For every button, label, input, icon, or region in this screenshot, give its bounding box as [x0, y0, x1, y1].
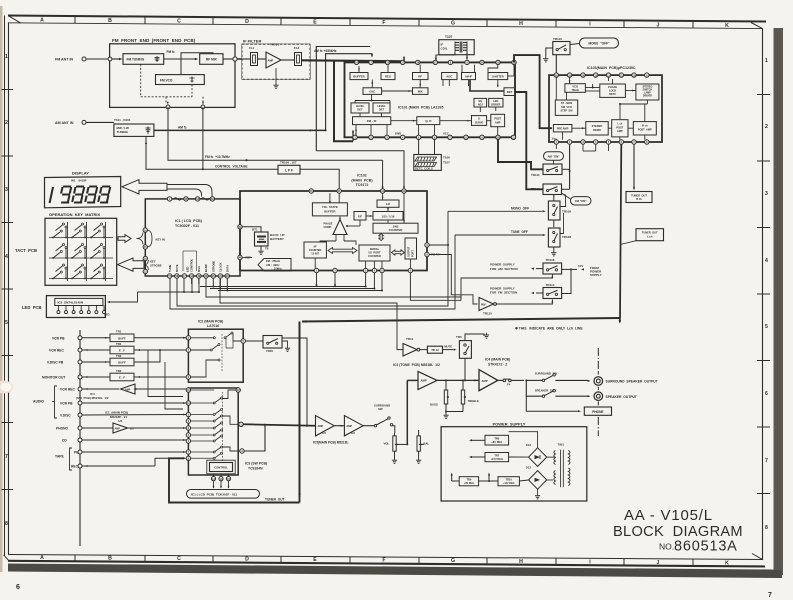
block AM-IF [462, 73, 476, 80]
svg-text:AMP: AMP [115, 427, 121, 430]
wire pin12 to IC103 preamp [514, 55, 552, 128]
svg-text:FM FRONT END (FRONT END P: FM FRONT END (FRONT END PCB) [112, 38, 196, 43]
block STEREO SWITCH LAMP DRIVER [636, 84, 659, 100]
svg-text:860513A: 860513A [674, 539, 738, 555]
white-out blob left edge [0, 381, 13, 394]
svg-text:FM TUNING: FM TUNING [127, 58, 145, 62]
svg-text:TR3: TR3 [116, 354, 122, 358]
svg-text:AMP: AMP [482, 379, 488, 383]
svg-text:Q. D: Q. D [425, 119, 432, 123]
detector coils T106 T107 [414, 155, 442, 171]
svg-text:POWER SUPPLY: POWER SUPPLY [493, 421, 526, 426]
wire mute control [220, 276, 403, 350]
svg-text:J: J [657, 22, 660, 28]
IC3 internal switches [222, 392, 224, 462]
svg-text:IF FILTER: IF FILTER [243, 39, 261, 44]
wire TR116 bottom feed [461, 275, 552, 301]
transistor TR16 switch [245, 340, 263, 342]
block DET [504, 88, 515, 96]
block L-ch POST AMP [612, 120, 628, 137]
svg-text:1/2: 1/2 [351, 431, 355, 435]
block CONTROL [210, 463, 233, 472]
svg-text:AM fc: AM fc [178, 125, 187, 129]
svg-text:BUFFER: BUFFER [353, 74, 364, 78]
callout FM 25kHz [258, 259, 291, 272]
svg-text:IC2 (MAIN PCB): IC2 (MAIN PCB) [198, 320, 223, 324]
IC102 right pins [425, 243, 429, 247]
bubble FM ON [571, 197, 592, 205]
svg-text:TR114: TR114 [546, 283, 555, 287]
svg-text:OUTPUT: OUTPUT [407, 246, 410, 257]
IC2 internal switches [191, 337, 213, 339]
svg-text:DEMO: DEMO [593, 128, 601, 132]
block PHONE [526, 396, 578, 411]
svg-text:G: G [451, 21, 455, 27]
svg-text:CONTROL VOLTAGE: CONTROL VOLTAGE [215, 165, 247, 169]
svg-text:TR110: TR110 [553, 37, 562, 41]
wire pin9 join [244, 425, 265, 451]
svg-text:1/2: 1/2 [118, 419, 123, 423]
wire AM ant [86, 121, 114, 123]
svg-text:LEVEL: LEVEL [377, 104, 386, 108]
svg-text:6: 6 [765, 391, 768, 397]
svg-text:PORT: PORT [411, 250, 414, 257]
svg-text:E . F: E . F [119, 376, 125, 380]
block S CURVE [472, 116, 487, 126]
svg-text:OSC: OSC [369, 89, 375, 93]
block S-METER [488, 73, 508, 80]
svg-text:IC5 SN74LS145N: IC5 SN74LS145N [58, 301, 84, 305]
IC3 output wires [191, 389, 215, 391]
svg-text:TR115: TR115 [483, 312, 492, 316]
crossing jog wires [148, 350, 183, 397]
svg-text:G: G [451, 558, 455, 564]
IC1 bottom pins [167, 274, 171, 278]
svg-text:1: 1 [765, 58, 768, 64]
audio bus vertical line [79, 330, 81, 546]
LED PCB pins [57, 306, 59, 311]
svg-text:AA - V105/L: AA - V105/L [624, 507, 713, 524]
IC103 internal wires [569, 77, 571, 83]
svg-text:LED PCB: LED PCB [22, 305, 42, 310]
svg-text:IC3 (SW PCB): IC3 (SW PCB) [245, 462, 267, 466]
svg-text:TC9172: TC9172 [356, 183, 369, 187]
IC1 left pins key strobe [143, 256, 147, 260]
block TR7 +15V REG [485, 453, 509, 462]
svg-text:1/2: 1/2 [322, 431, 326, 435]
wires pins to detc coils [418, 140, 420, 155]
svg-text:TR113: TR113 [531, 187, 540, 191]
svg-text:FM - IF: FM - IF [367, 119, 377, 123]
wire mono off control [177, 211, 448, 306]
svg-text:76kHz: 76kHz [571, 88, 579, 92]
svg-text:REG: REG [385, 74, 391, 78]
block PRE AMP [553, 125, 572, 132]
block BUFFER [350, 73, 368, 80]
svg-text:+15V REG: +15V REG [491, 457, 503, 461]
wire TUNER OUT L-ch long heavy [620, 144, 621, 318]
svg-text:MONITOR OUT: MONITOR OUT [42, 376, 65, 380]
block SERIAL I/O PORT COUNTER [359, 245, 390, 261]
block TUNER OUT R-ch [626, 192, 652, 203]
IC101 top pins [354, 60, 358, 64]
svg-text:+12V REG: +12V REG [503, 482, 515, 485]
ground at TR16 [282, 341, 288, 346]
wire VCO to mixer [181, 53, 213, 75]
svg-text:DET: DET [379, 108, 385, 112]
svg-text:FM VCO: FM VCO [160, 78, 173, 82]
svg-text:IC101 (MAIN PCB) LA1265: IC101 (MAIN PCB) LA1265 [398, 105, 444, 109]
svg-text:STROBE: STROBE [212, 261, 216, 272]
svg-text:SURROUND SPEAKER OUTPUT: SURROUND SPEAKER OUTPUT [606, 380, 658, 384]
svg-text:SW: SW [378, 407, 383, 411]
svg-text:FL2: FL2 [294, 46, 300, 50]
control bus lines below IC102 [316, 273, 318, 285]
svg-text:BASS: BASS [430, 402, 438, 406]
wire TR110 to pin16 [555, 55, 557, 73]
block PHASE LOCK DETC [600, 84, 626, 97]
svg-text:DETC: DETC [609, 92, 616, 96]
svg-text:C: C [177, 556, 181, 562]
svg-text:MONO "OFF": MONO "OFF" [588, 42, 610, 46]
svg-text:IN1 9410P: IN1 9410P [71, 179, 87, 183]
svg-text:7: 7 [768, 592, 772, 599]
block LEVEL DET 1 [351, 103, 369, 113]
svg-text:D12: D12 [526, 443, 532, 447]
svg-text:PHASE: PHASE [608, 85, 617, 89]
svg-text:TR5: TR5 [456, 335, 462, 339]
svg-text:A: A [40, 555, 44, 561]
svg-text:+8V REG: +8V REG [491, 440, 502, 444]
op IC3 TC9164N switch matrix [188, 388, 238, 475]
svg-text:FM : 25kHz: FM : 25kHz [266, 259, 281, 263]
key matrix grid [49, 222, 113, 281]
svg-text:LEVEL: LEVEL [356, 104, 365, 108]
svg-text:TR2: TR2 [116, 369, 122, 373]
dashed tuning voltage lines [140, 64, 142, 97]
right page shadow band [774, 28, 784, 575]
wire amp1 to amp2 [334, 425, 344, 427]
svg-text:AGC: AGC [446, 74, 452, 78]
key switches [52, 223, 105, 279]
block RF [413, 73, 429, 80]
chassis dash-dot line [597, 348, 599, 356]
heavy wire IC3 out to amps [243, 424, 315, 425]
svg-text:FOR FM SECTION: FOR FM SECTION [490, 291, 517, 295]
wire pin6 to TR11 [409, 273, 411, 294]
block MIX [413, 88, 429, 95]
block SQ ADJ [474, 98, 487, 107]
svg-text:: 10kHz: : 10kHz [272, 266, 283, 270]
block 1/15 1/16 [373, 212, 403, 221]
svg-text:AMP: AMP [268, 58, 274, 62]
svg-text:TC9302F - 011: TC9302F - 011 [175, 224, 199, 228]
svg-text:TR7: TR7 [494, 453, 499, 457]
svg-text:AM "ON": AM "ON" [548, 154, 561, 158]
svg-text:D: D [245, 19, 249, 25]
svg-text:AMP: AMP [346, 424, 352, 428]
svg-text:VCR REC: VCR REC [60, 388, 75, 392]
svg-text:7: 7 [5, 454, 8, 460]
svg-text:MUTE: MUTE [444, 345, 452, 349]
svg-text:TR101: TR101 [270, 43, 279, 47]
svg-text:+8V REG: +8V REG [464, 482, 474, 485]
svg-text:12V: 12V [578, 264, 583, 268]
svg-text:MUTE: MUTE [175, 264, 179, 272]
svg-text:T107: T107 [443, 160, 450, 164]
block R-ch POST AMP [633, 122, 656, 135]
block TR10 +12V REG [498, 477, 519, 486]
IC101 internal wires [358, 66, 360, 73]
svg-text:TUNE OFF: TUNE OFF [511, 230, 528, 234]
svg-text:3: 3 [5, 187, 8, 193]
svg-text:AMP: AMP [125, 388, 131, 391]
svg-text:TR9: TR9 [466, 478, 471, 482]
svg-text:A: A [40, 17, 44, 23]
svg-text:TUNE: TUNE [168, 264, 172, 272]
svg-text:TB: TB [265, 247, 269, 251]
svg-text:COUNTER: COUNTER [368, 254, 381, 258]
wire to VOL [393, 426, 395, 433]
svg-text:MONO OFF: MONO OFF [511, 206, 529, 210]
switch TR109 box [548, 201, 560, 220]
bubble IC1 LCD PCB TCK302F-011 [187, 490, 260, 499]
svg-text:F4: F4 [507, 383, 511, 387]
block LEVEL DET 2 [373, 103, 390, 113]
svg-text:VCR PB: VCR PB [60, 402, 73, 406]
svg-text:(MAIN PCB): (MAIN PCB) [351, 178, 373, 182]
svg-text:PRE AMP: PRE AMP [557, 127, 569, 131]
svg-text:AM fc +450kHz: AM fc +450kHz [314, 49, 337, 53]
svg-text:TUNER OUT: TUNER OUT [642, 231, 658, 235]
svg-text:F/F: F/F [358, 214, 362, 218]
block 1/N2 COUNTER [373, 223, 418, 233]
svg-text:BUFFER: BUFFER [324, 209, 335, 213]
svg-text:BAL: BAL [424, 442, 430, 446]
IC1 right pins [238, 225, 242, 229]
svg-text:SW VCO: SW VCO [561, 106, 572, 109]
svg-text:FM "ON": FM "ON" [575, 199, 587, 203]
svg-text:B: B [108, 18, 112, 24]
block TUNER OUT L-ch callout [636, 229, 664, 241]
svg-text:DRIVER: DRIVER [643, 95, 652, 98]
wires D12 [509, 432, 538, 448]
wires T107 to pins [435, 55, 437, 61]
block STEREO DEMO [586, 122, 608, 135]
svg-text:ADJ: ADJ [478, 103, 484, 107]
svg-text:AMP: AMP [421, 379, 427, 383]
svg-text:FM fc +10.7MHz: FM fc +10.7MHz [205, 155, 230, 159]
svg-text:T101 , D101: T101 , D101 [114, 118, 131, 122]
svg-text:K: K [725, 560, 729, 566]
wire POST AMP pin10 to TR111 [498, 140, 543, 170]
svg-text:R ch: R ch [642, 125, 648, 128]
svg-text:NO.: NO. [659, 542, 674, 552]
svg-text:BATTERY: BATTERY [270, 237, 284, 241]
IC1 top pins [167, 197, 171, 201]
svg-text:IC2 (TONE PCB) M5218L 1/2: IC2 (TONE PCB) M5218L 1/2 [393, 363, 440, 367]
svg-text:AM-IF: AM-IF [465, 74, 473, 78]
svg-text:SQ: SQ [478, 99, 482, 103]
svg-text:IC4: IC4 [90, 392, 95, 396]
svg-text:8: 8 [5, 521, 8, 527]
svg-text:CD: CD [62, 439, 67, 443]
svg-text:E: E [313, 20, 317, 26]
svg-text:IC4 (MAIN PCB): IC4 (MAIN PCB) [485, 358, 510, 362]
bubble AM ON [544, 152, 564, 160]
svg-text:R ch: R ch [636, 197, 642, 201]
svg-text:CONTROL: CONTROL [190, 258, 194, 272]
svg-text:COUNTER: COUNTER [309, 249, 322, 252]
svg-text:TAPE: TAPE [55, 455, 65, 459]
svg-text:MSG: MSG [197, 266, 201, 272]
block F/F [354, 212, 366, 221]
svg-text:V.DISC: V.DISC [60, 414, 71, 418]
svg-text:AM ANT IN: AM ANT IN [55, 121, 74, 125]
svg-text:K: K [725, 23, 729, 29]
block AGC [442, 73, 457, 80]
amp IC5 first [316, 416, 335, 436]
wires display arrow to pins [167, 185, 212, 197]
svg-text:15 BIT: 15 BIT [311, 252, 319, 256]
wire battery to pin52 [243, 227, 262, 232]
block QD [417, 117, 440, 125]
svg-text:H: H [519, 21, 523, 27]
grid column letters bottom [40, 555, 729, 566]
svg-text:PHONO: PHONO [56, 427, 69, 431]
svg-text:COIL: COIL [441, 47, 448, 51]
svg-text:2: 2 [765, 124, 768, 130]
svg-text:REC: REC [71, 465, 79, 469]
ground under battery [260, 246, 262, 249]
svg-text:GND: GND [395, 132, 401, 136]
svg-text:L P F: L P F [285, 168, 293, 172]
svg-text:4: 4 [765, 258, 768, 264]
svg-text:1/15 / 1/16: 1/15 / 1/16 [382, 214, 395, 218]
svg-text:IC1 ( LCD PCB) TCK302F - 011: IC1 ( LCD PCB) TCK302F - 011 [191, 493, 237, 497]
svg-text:FL1: FL1 [249, 46, 255, 50]
svg-text:F: F [382, 558, 385, 564]
svg-text:AMP: AMP [495, 121, 501, 124]
svg-text:T106: T106 [443, 156, 450, 160]
svg-text:FOR AM SECTION: FOR AM SECTION [490, 267, 518, 271]
block FM VCO [156, 75, 205, 85]
wire LED control to IC5 [183, 278, 185, 292]
op IC101 main block [345, 62, 516, 137]
svg-text:AM : 9kHz: AM : 9kHz [266, 263, 280, 267]
wire INV out to TR114 [496, 300, 552, 305]
svg-text:KEY IN: KEY IN [156, 237, 165, 241]
wire L-ch heavy to bottom left [302, 318, 620, 322]
block 1/2 [377, 200, 399, 207]
wire branch to FM-IF pin1 [334, 61, 353, 141]
svg-text:POST: POST [494, 118, 501, 121]
svg-text:D13: D13 [526, 466, 532, 470]
svg-text:POST AMP: POST AMP [638, 129, 652, 132]
svg-text:FM ANT IN: FM ANT IN [55, 57, 73, 61]
svg-text:DET: DET [507, 90, 513, 94]
svg-text:B: B [108, 556, 112, 562]
block FM TUNING [123, 54, 164, 65]
block IC5 SN74LS145N [55, 298, 103, 305]
svg-text:RF MIX: RF MIX [206, 57, 218, 61]
svg-text:TR16: TR16 [266, 349, 273, 353]
svg-text:OPERATION KEY MATRIX: OPERATION KEY MATRIX [49, 212, 101, 217]
svg-text:VCR REC: VCR REC [49, 349, 64, 353]
svg-text:TR11: TR11 [406, 337, 414, 341]
fat arrow IF counter to serial [328, 248, 357, 254]
IC102 top pins [309, 189, 313, 193]
junction circles on front end bottom [166, 105, 170, 109]
block TRI-STATE BUFFER [312, 203, 347, 216]
wire IC102 pin9 pin8 out [429, 255, 477, 305]
svg-text:LED: LED [493, 99, 498, 103]
block TR12 [420, 349, 428, 351]
wire LPF to IC102 pin [300, 169, 339, 189]
wire TUNER OUT R-ch [633, 144, 635, 189]
svg-text:I/F: I/F [314, 244, 317, 248]
svg-text:FM fc: FM fc [167, 50, 176, 54]
arrow matrix to IC1 [118, 235, 131, 243]
svg-text:TR109: TR109 [562, 210, 571, 214]
svg-text:IC1 ( LCD PCB): IC1 ( LCD PCB) [175, 219, 203, 223]
svg-text:STROBE: STROBE [150, 264, 162, 268]
svg-text:RF: RF [418, 74, 422, 78]
svg-text:5: 5 [5, 320, 8, 326]
svg-text:TR108: TR108 [562, 235, 571, 239]
arrow IC1 to display [122, 180, 167, 194]
wire IC2 pin6 to IC3 [237, 391, 239, 393]
svg-text:TR106 , 107: TR106 , 107 [280, 161, 297, 165]
svg-text:CONTROL: CONTROL [214, 466, 228, 470]
wire IC103 pin2 to TR111/TR113 [569, 144, 571, 189]
svg-text:IC102: IC102 [357, 174, 367, 178]
svg-text:T901: T901 [558, 443, 565, 447]
svg-text:PHONE: PHONE [592, 410, 603, 414]
arrow IC1 to matrix key strobe [118, 258, 145, 271]
svg-text:TR4: TR4 [116, 342, 122, 346]
svg-text:INV: INV [481, 302, 486, 306]
svg-text:E: E [313, 557, 317, 563]
wire tune off control [170, 235, 455, 309]
block LED DRIVER [489, 98, 503, 107]
svg-text:BT1: BT1 [252, 228, 258, 232]
svg-text:D: D [245, 557, 249, 563]
svg-text:TR 12: TR 12 [431, 348, 439, 352]
wire TR16 to amps [272, 331, 274, 336]
block ST-MON SW VCO STEP SW [555, 100, 577, 115]
svg-text:STEREO: STEREO [592, 124, 603, 128]
fat arrow 1/N2 to serial [379, 234, 384, 241]
svg-text:AMP: AMP [617, 130, 623, 133]
svg-text:VCC: VCC [443, 132, 449, 136]
bottom page shadow band [8, 564, 782, 579]
svg-text:DATA: DATA [226, 265, 230, 272]
svg-text:S-METER: S-METER [492, 74, 504, 78]
grid column letters top [40, 16, 729, 29]
svg-text:IC103(MAIN PCB)μPC1235C: IC103(MAIN PCB)μPC1235C [587, 66, 636, 70]
block TR6 +8V REG [485, 435, 509, 445]
svg-text:6: 6 [16, 584, 20, 591]
svg-text:H: H [519, 559, 523, 565]
IC101 bottom pins [353, 135, 357, 139]
svg-text:COUNTER: COUNTER [389, 228, 403, 232]
block I/F COUNTER 15BIT [304, 242, 326, 258]
svg-text:ST - MON: ST - MON [561, 102, 572, 105]
svg-text:VCR PB: VCR PB [52, 336, 65, 340]
svg-text:DRIVER: DRIVER [491, 104, 500, 107]
wires inside filter [242, 58, 251, 60]
